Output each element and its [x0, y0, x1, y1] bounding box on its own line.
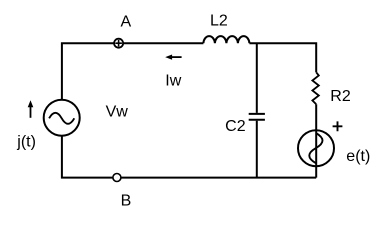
wire: resistor R2 to bottom wire, passing through source e(t)	[315, 104, 317, 177]
voltage source e(t) (AC source circle)	[298, 130, 334, 166]
capacitor C2 plates	[249, 114, 265, 120]
current arrow Iw, pointing left	[171, 56, 182, 58]
svg-text:B: B	[121, 193, 132, 210]
plus sign at e(t) source	[333, 121, 343, 131]
voltage source Vw (AC source circle)	[44, 100, 80, 136]
svg-text:Vw: Vw	[106, 104, 129, 121]
inductor L2	[203, 36, 249, 43]
node A plus sign	[115, 40, 122, 47]
sine wave inside Vw source	[49, 113, 74, 124]
node A (circled plus terminal)	[114, 39, 123, 48]
svg-text:e(t): e(t)	[346, 148, 370, 165]
svg-text:R2: R2	[330, 88, 351, 105]
node B (open terminal circle)	[113, 174, 121, 182]
svg-text:L2: L2	[210, 13, 228, 30]
wire: bottom wire and left branch bottom	[62, 136, 316, 178]
svg-text:Iw: Iw	[165, 73, 181, 90]
wire: left branch top + top wire from corner to inductor L2	[62, 43, 204, 100]
resistor R2	[312, 72, 318, 104]
svg-text:C2: C2	[225, 118, 246, 135]
wire: top wire from inductor to top-right corner, down to resistor R2	[249, 43, 316, 72]
current arrow j(t), pointing up	[30, 106, 32, 118]
wire: capacitor C2 lower plate to bottom wire	[256, 121, 258, 178]
vertical sine wave inside e(t) source	[309, 133, 322, 163]
svg-text:A: A	[120, 13, 131, 30]
svg-text:j(t): j(t)	[16, 133, 36, 150]
wire: capacitor C2 branch, top wire to upper plate	[256, 43, 258, 113]
